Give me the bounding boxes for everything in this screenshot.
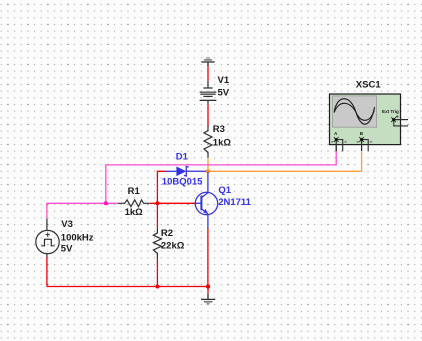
oscilloscope XSC1 <box>330 94 401 145</box>
label B - mark <box>370 141 372 143</box>
wire: V3 - to bottom rail (red) <box>46 258 48 287</box>
svg-text:D1: D1 <box>176 152 189 163</box>
scope trace 2 <box>334 103 374 120</box>
junction: R1 / D1 / Q1 base / R2 (red) <box>155 201 159 205</box>
AC source V3 <box>36 219 59 258</box>
svg-text:5V: 5V <box>218 88 230 99</box>
wire: node to oscilloscope channel B (orange) <box>208 151 362 172</box>
wire: R3 bottom to node (orange) <box>207 158 209 172</box>
wire: bottom ground rail (red) <box>47 286 208 288</box>
scope channel A terminal <box>334 137 343 151</box>
svg-text:2N1711: 2N1711 <box>218 197 251 208</box>
diode D1 (Schottky) <box>166 167 206 177</box>
svg-text:Ext Trig: Ext Trig <box>382 109 399 114</box>
wire: top ground to V1 + terminal (red) <box>207 67 209 81</box>
wire: scope channel A to net V3+ (pink) <box>106 151 336 204</box>
wire: base node down to R2 top (red) <box>156 203 158 228</box>
ground (bottom) <box>201 293 215 303</box>
resistor R1 <box>118 200 150 207</box>
resistor R2 <box>153 228 161 259</box>
svg-text:10BQ015: 10BQ015 <box>162 177 203 188</box>
wire: R2 bottom to rail (red) <box>156 259 158 287</box>
battery V1 <box>200 81 217 105</box>
wire: V3 + to node (pink) <box>47 203 118 219</box>
svg-text:V3: V3 <box>61 219 73 230</box>
scope channel B terminal <box>359 137 368 151</box>
scope trace 1 <box>334 99 374 125</box>
svg-text:1kΩ: 1kΩ <box>213 138 232 149</box>
svg-text:R1: R1 <box>128 186 141 197</box>
ground (top, above V1) <box>201 58 214 67</box>
wire: rail to bottom ground (red) <box>207 287 209 294</box>
svg-text:R3: R3 <box>213 124 225 135</box>
wire: scope A+ pin stub to pink wire <box>335 145 337 152</box>
junction: emitter / rail / ground (red) <box>206 284 210 288</box>
svg-text:Q1: Q1 <box>218 185 231 196</box>
label A - mark <box>344 141 346 143</box>
resistor R3 <box>204 126 212 158</box>
transistor Q1 (NPN) <box>195 172 217 228</box>
svg-text:100kHz: 100kHz <box>61 232 94 243</box>
junction: D1 cathode / R3 / Q1 collector / scope B (orange) <box>206 169 210 173</box>
svg-text:R2: R2 <box>161 228 173 239</box>
wire: Q1 emitter to bottom rail (red) <box>207 228 209 287</box>
svg-text:22kΩ: 22kΩ <box>161 240 185 251</box>
svg-text:5V: 5V <box>61 243 73 254</box>
wire: V1 - terminal to R3 top (red) <box>207 105 209 126</box>
svg-text:1kΩ: 1kΩ <box>125 207 144 218</box>
label A + mark <box>331 141 333 143</box>
scope Ext Trig terminal <box>391 117 408 126</box>
label Ext Trig + <box>396 116 398 118</box>
wire: R1 right to Q1 base (red) <box>150 202 196 204</box>
svg-text:XSC1: XSC1 <box>356 80 382 91</box>
junction: V3+ / R1 / scope A (pink) <box>104 201 108 205</box>
wire: base node up to D1 anode (red) <box>157 171 166 203</box>
junction: R2 / rail (red) <box>155 285 159 289</box>
label B + mark <box>357 141 359 143</box>
svg-text:V1: V1 <box>218 75 230 86</box>
